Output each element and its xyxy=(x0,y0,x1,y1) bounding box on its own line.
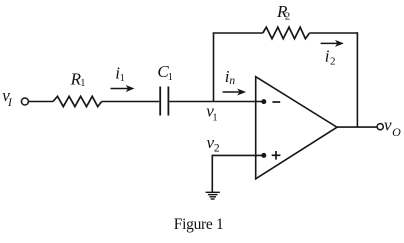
i2 label xyxy=(325,47,336,68)
output terminal circle xyxy=(377,124,383,130)
op-amp plus sign xyxy=(272,151,281,160)
svg-text:2: 2 xyxy=(330,56,336,68)
node v1 label xyxy=(206,102,217,124)
svg-text:1: 1 xyxy=(120,73,125,84)
svg-text:v: v xyxy=(384,116,392,135)
ground riser wire xyxy=(211,155,213,193)
svg-text:I: I xyxy=(7,97,13,109)
capacitor C1 xyxy=(160,87,168,116)
resistor R2 xyxy=(263,27,310,39)
top feedback wire right segment xyxy=(310,32,358,34)
i1 label xyxy=(115,63,125,83)
C1 label xyxy=(157,62,173,83)
svg-text:n: n xyxy=(229,75,235,87)
svg-text:2: 2 xyxy=(214,143,220,155)
op-amp minus sign xyxy=(272,101,280,103)
i2 current arrow xyxy=(321,40,344,47)
node v2 label xyxy=(207,133,220,155)
svg-text:Figure 1: Figure 1 xyxy=(174,216,224,233)
R1 label xyxy=(70,70,86,90)
R2 label xyxy=(276,2,290,23)
in label xyxy=(225,67,236,87)
svg-text:2: 2 xyxy=(285,10,291,22)
wire v2 to non-inverting input xyxy=(212,154,263,156)
op-amp U1 triangle xyxy=(256,77,337,179)
i1 current arrow xyxy=(111,85,135,92)
input terminal circle xyxy=(21,98,28,105)
output wire xyxy=(336,126,378,128)
resistor R1 xyxy=(53,96,102,106)
top feedback wire left segment xyxy=(213,32,263,34)
feedback riser wire (node v1 up to R2) xyxy=(213,33,215,102)
wire R1 to C1 xyxy=(102,101,160,103)
svg-text:1: 1 xyxy=(212,112,217,123)
in current arrow xyxy=(223,89,246,96)
wire input to R1 xyxy=(29,101,53,103)
right riser wire (R2 down to output) xyxy=(356,32,358,127)
wire C1 to op-amp inverting input (node v1) xyxy=(169,101,263,103)
svg-text:1: 1 xyxy=(80,78,85,89)
ground symbol xyxy=(206,192,220,199)
junction dot at inverting input xyxy=(261,99,266,104)
junction dot at non-inverting input xyxy=(261,153,266,158)
node vO label xyxy=(384,116,401,139)
node vI label xyxy=(2,86,13,109)
svg-text:O: O xyxy=(392,125,401,139)
caption Figure 1 xyxy=(174,216,224,233)
svg-text:1: 1 xyxy=(168,72,173,83)
